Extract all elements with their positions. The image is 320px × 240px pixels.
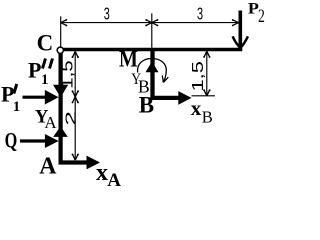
svg-text:M: M xyxy=(119,46,138,72)
top dimension line xyxy=(61,22,239,24)
axis arrowhead xB xyxy=(178,91,191,105)
svg-text:P: P xyxy=(28,58,41,83)
svg-text:A: A xyxy=(39,153,57,179)
dim arrow at C pointing left xyxy=(61,19,68,26)
label xA xyxy=(96,160,121,191)
left vertical member with corner arm at A xyxy=(61,53,88,163)
svg-text:2: 2 xyxy=(258,5,265,27)
dim arrows at middle tick xyxy=(145,19,152,26)
moment M arc with arrowhead xyxy=(138,58,169,82)
svg-text:3: 3 xyxy=(197,5,203,24)
dimension extension line above C xyxy=(60,16,62,47)
beam CB (horizontal member) xyxy=(62,48,242,52)
label YB xyxy=(131,71,149,96)
force Q arrow xyxy=(20,134,59,148)
svg-text:x: x xyxy=(191,96,202,120)
svg-text:A: A xyxy=(44,113,57,132)
force P1'' arrowhead xyxy=(53,85,68,98)
pin circle at C xyxy=(57,47,63,53)
dim arrow at P2 pointing right xyxy=(232,19,239,26)
svg-text:1: 1 xyxy=(13,99,20,115)
svg-text:A: A xyxy=(107,170,121,190)
left dimension line 2 xyxy=(74,97,76,160)
svg-text:B: B xyxy=(139,92,154,117)
svg-text:Q: Q xyxy=(5,129,18,153)
extension line at B level xyxy=(192,95,216,97)
svg-text:x: x xyxy=(96,160,108,186)
svg-text:B: B xyxy=(202,108,213,127)
axis arrowhead xA xyxy=(87,156,101,170)
label P1'' xyxy=(28,58,53,89)
middle vertical member with corner arm at B xyxy=(153,48,181,98)
label YA xyxy=(35,107,58,132)
dimension extension line above middle xyxy=(151,13,153,47)
right dimension line 1,5 xyxy=(206,51,208,96)
svg-text:2: 2 xyxy=(62,111,79,126)
label xB xyxy=(191,96,213,127)
svg-text:1: 1 xyxy=(41,72,49,88)
force P1' arrow xyxy=(23,90,59,105)
left dimension line 1,5 xyxy=(74,52,76,97)
svg-text:3: 3 xyxy=(104,5,110,24)
reaction arrowhead YB xyxy=(146,62,159,73)
label P1' xyxy=(1,82,20,115)
svg-text:1,5: 1,5 xyxy=(189,61,207,91)
force P2 arrow xyxy=(233,11,248,49)
svg-text:1,5: 1,5 xyxy=(58,60,76,88)
reaction arrowhead YA xyxy=(53,126,68,137)
svg-text:C: C xyxy=(37,30,54,55)
label P2 xyxy=(248,0,265,27)
